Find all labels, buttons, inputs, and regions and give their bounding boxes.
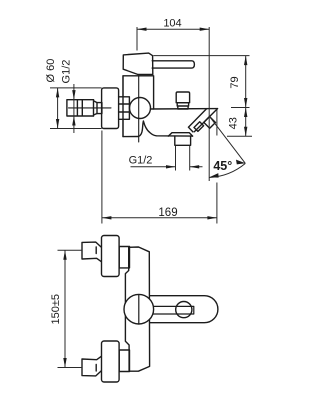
labels side view — [45, 17, 241, 219]
arrowheads G1/2 bottom — [166, 165, 176, 168]
wall escutcheon (side view) — [102, 88, 119, 129]
spout top edge — [150, 108, 217, 110]
diverter knob — [176, 92, 189, 103]
arrowheads 169 — [102, 216, 112, 219]
cartridge body — [123, 76, 154, 137]
handle lever bar — [152, 61, 194, 68]
supply nipple tail — [97, 103, 102, 114]
svg-text:79: 79 — [229, 76, 241, 88]
lower wall escutcheon (front) — [102, 341, 120, 382]
arrowhead 45deg on vertical — [209, 173, 218, 178]
arrowheads 104 — [137, 28, 147, 31]
svg-text:150±5: 150±5 — [50, 294, 62, 325]
45deg leader line — [209, 109, 245, 181]
hub vertical diameter line — [138, 295, 140, 324]
dimension 169 lines — [102, 109, 217, 224]
lever rod slot lines — [153, 306, 194, 314]
dimension 104 lines — [137, 27, 209, 109]
svg-text:45°: 45° — [213, 159, 232, 173]
diameter 60 dimension lines — [50, 88, 102, 129]
body edge behind nut — [122, 76, 124, 137]
arrowheads dia60 — [56, 88, 59, 98]
diverter knob base — [177, 103, 188, 109]
45deg angle arc — [209, 163, 245, 177]
handle knob — [123, 53, 153, 74]
shower outlet pipe — [175, 136, 191, 145]
faucet body (front) — [125, 247, 149, 371]
G1/2 bottom leader lines — [131, 146, 203, 171]
supply nipple taper — [94, 100, 98, 116]
supply nipple hex — [67, 100, 94, 116]
shower outlet boss ledge — [168, 133, 192, 136]
arrowhead 45deg leader end — [236, 160, 246, 165]
upper wall escutcheon (front) — [102, 236, 120, 277]
spout underside with bump — [123, 121, 193, 137]
ball joint circle — [130, 98, 151, 119]
svg-text:169: 169 — [158, 207, 177, 219]
lower mount nut — [82, 356, 102, 376]
label 150+-5 — [50, 294, 62, 325]
G1/2 left dimension line — [73, 84, 75, 133]
connection nut (side view) — [119, 97, 130, 120]
arrowheads 150+-5 — [63, 250, 66, 260]
handle hub circle — [124, 294, 154, 324]
lever end knob circle — [176, 302, 192, 318]
svg-text:G1/2: G1/2 — [129, 154, 153, 166]
lower eccentric connector — [119, 350, 129, 372]
supply centerline — [69, 107, 112, 109]
dimension 150+-5 — [58, 250, 83, 367]
aerator ring on cut face — [194, 122, 204, 132]
handle lever (front) — [150, 296, 218, 323]
aerator tip square — [204, 117, 216, 129]
dimension 79-43 lines — [153, 56, 252, 137]
svg-text:43: 43 — [227, 117, 239, 129]
arrowheads 79 — [244, 56, 247, 66]
aerator outer face — [194, 109, 217, 132]
svg-text:G1/2: G1/2 — [60, 60, 72, 84]
svg-text:104: 104 — [163, 17, 181, 29]
arrowheads 43 — [244, 108, 247, 118]
svg-text:Ø 60: Ø 60 — [45, 59, 57, 83]
body centerline — [138, 76, 140, 142]
upper mount nut — [82, 242, 102, 262]
upper eccentric connector — [119, 247, 129, 268]
arrowheads G1/2 left — [72, 90, 75, 100]
spout 45deg cut edge — [188, 109, 206, 132]
